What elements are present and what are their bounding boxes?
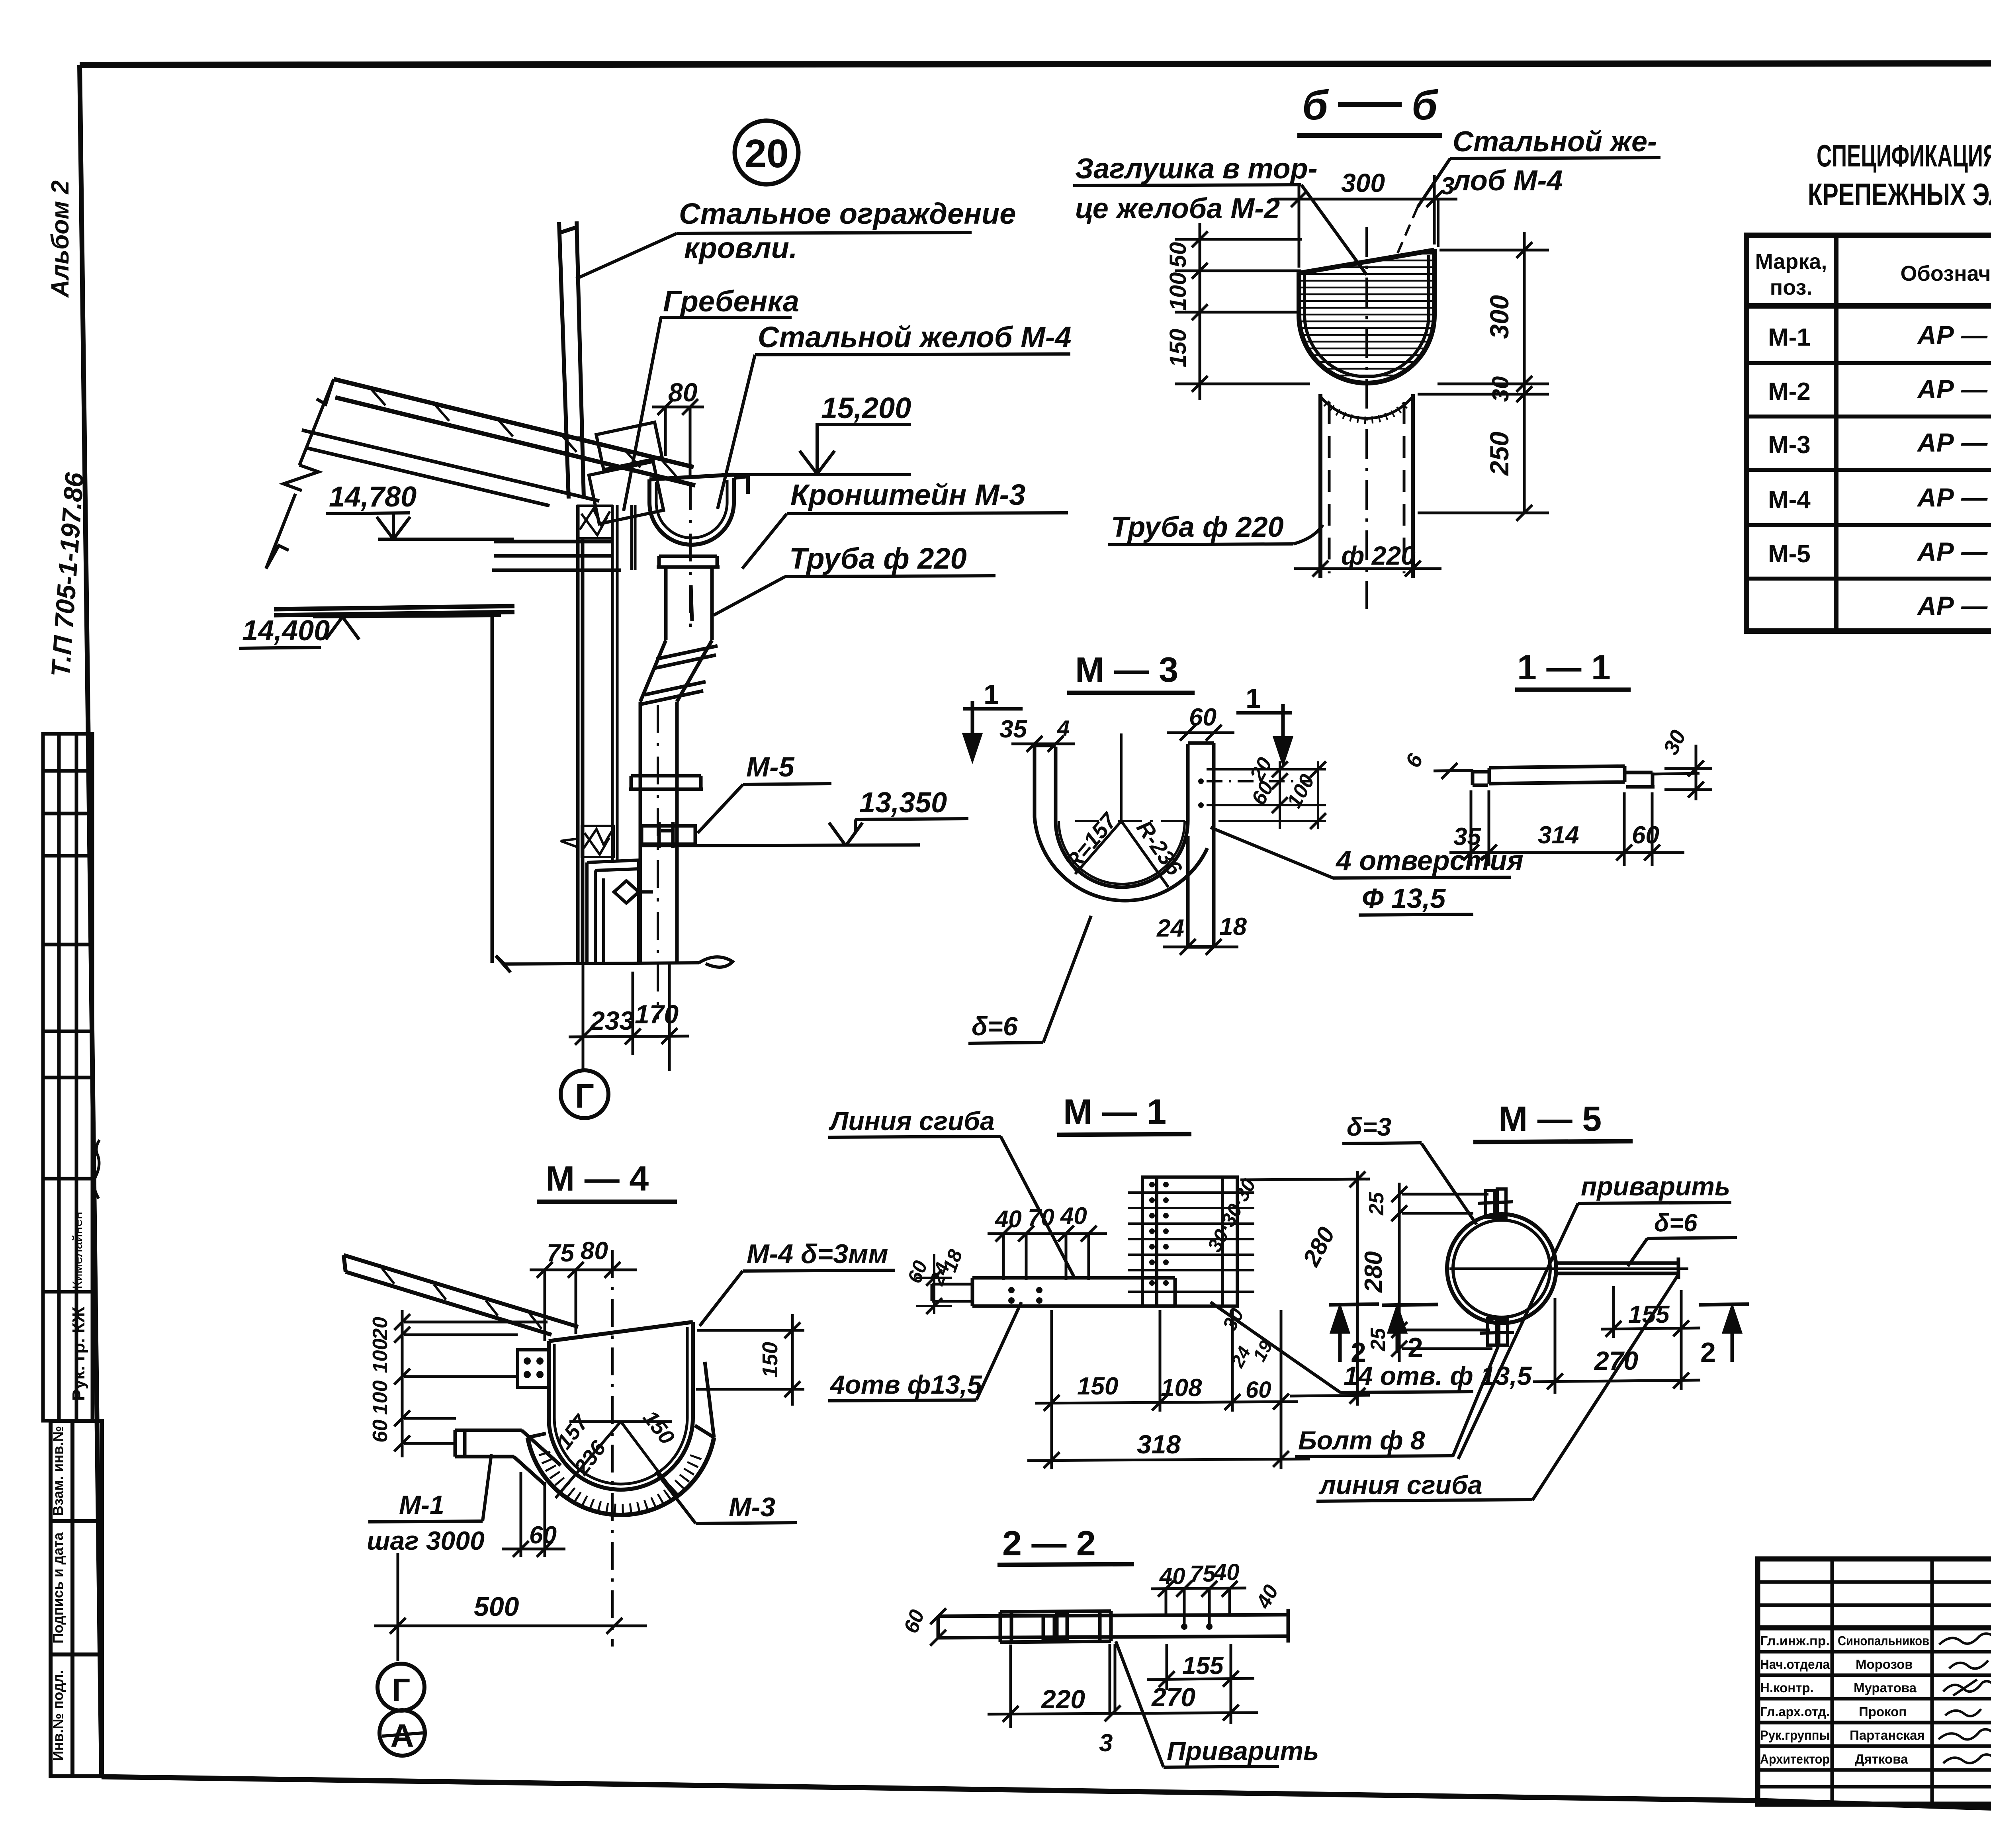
svg-text:Стальной желоб М-4: Стальной желоб М-4: [758, 321, 1072, 354]
svg-text:35: 35: [1453, 823, 1481, 851]
M-1 strap: [455, 1430, 561, 1485]
clamp ring: [1447, 1214, 1556, 1323]
comb / eave fixing parts: [576, 317, 663, 524]
svg-text:М-5: М-5: [1768, 540, 1811, 568]
svg-text:100: 100: [369, 1339, 392, 1373]
svg-text:60: 60: [1246, 1377, 1271, 1403]
svg-text:25: 25: [1367, 1328, 1390, 1351]
svg-text:100: 100: [1165, 272, 1191, 311]
svg-text:приварить: приварить: [1581, 1171, 1730, 1201]
svg-text:Морозов: Морозов: [1856, 1657, 1913, 1672]
svg-text:2: 2: [1351, 1337, 1366, 1368]
svg-text:13,350: 13,350: [859, 787, 947, 819]
signature scribble in upper stamp: [94, 1140, 100, 1199]
pipe centerline dashes: [658, 482, 690, 1019]
axis circles Г / А: [377, 1664, 424, 1711]
pipe below gutter: [1320, 394, 1413, 578]
bottom bolt lugs: [1480, 1319, 1514, 1345]
wall columns: [492, 505, 621, 963]
svg-text:250: 250: [1484, 432, 1514, 476]
svg-text:Линия сгиба: Линия сгиба: [829, 1106, 995, 1136]
svg-text:М-3: М-3: [729, 1492, 775, 1522]
svg-text:14,400: 14,400: [242, 615, 330, 647]
svg-text:300: 300: [1484, 295, 1514, 339]
svg-text:18: 18: [1219, 913, 1247, 941]
svg-text:Рук.группы: Рук.группы: [1760, 1728, 1830, 1742]
right dims 300/30/250: [1418, 232, 1549, 514]
svg-text:Нач.отдела: Нач.отдела: [1760, 1657, 1830, 1672]
left margin lower stamp table: [51, 1421, 102, 1776]
strap tail right: [1449, 1257, 1688, 1279]
svg-text:АР — 16: АР — 16: [1917, 483, 1991, 512]
masonry hatched block lower: [561, 826, 614, 857]
bracket band M-3 with teeth: [528, 1437, 714, 1515]
dim 150 right: [696, 1314, 804, 1406]
svg-text:кровли.: кровли.: [684, 231, 797, 264]
svg-text:Г: Г: [392, 1672, 411, 1708]
svg-text:М — 5: М — 5: [1498, 1099, 1602, 1138]
svg-text:АР — 16: АР — 16: [1917, 428, 1991, 457]
handrail post: [559, 221, 584, 499]
center dash-dot: [1365, 227, 1368, 609]
svg-text:Труба ф 220: Труба ф 220: [789, 542, 967, 575]
weld seam under gutter: [1321, 397, 1412, 418]
svg-text:М-1: М-1: [399, 1490, 444, 1519]
svg-text:лоб М-4: лоб М-4: [1451, 165, 1563, 197]
svg-text:14 отв. ф 13,5: 14 отв. ф 13,5: [1344, 1361, 1532, 1390]
svg-text:М-3: М-3: [1768, 431, 1811, 459]
gutter cross-section hatched: [1299, 250, 1435, 383]
holes in arm: [1198, 778, 1204, 784]
lower pipe: [629, 702, 703, 963]
svg-text:Стальное ограждение: Стальное ограждение: [679, 197, 1016, 230]
pipe socket under gutter: [657, 556, 720, 567]
svg-text:35: 35: [999, 716, 1027, 743]
svg-text:М — 1: М — 1: [1063, 1092, 1166, 1131]
svg-text:КРЕПЕЖНЫХ ЭЛЕМЕНТОВ, ЗАЛОЖЕНН: КРЕПЕЖНЫХ ЭЛЕМЕНТОВ, ЗАЛОЖЕННЫХ В ЛИСТАХ…: [1808, 177, 1991, 212]
svg-text:Дяткова: Дяткова: [1855, 1752, 1908, 1766]
svg-text:Муратова: Муратова: [1854, 1680, 1917, 1695]
svg-text:Г: Г: [575, 1078, 594, 1115]
svg-text:б: б: [1412, 82, 1439, 129]
svg-text:20: 20: [744, 131, 788, 176]
radii: [1075, 821, 1168, 887]
svg-text:Гл.арх.отд.: Гл.арх.отд.: [1760, 1704, 1830, 1719]
svg-text:АР — 16: АР — 16: [1917, 320, 1991, 350]
svg-text:б: б: [1302, 82, 1329, 129]
svg-text:500: 500: [474, 1592, 519, 1622]
svg-text:233: 233: [589, 1006, 634, 1035]
svg-text:50: 50: [1165, 242, 1191, 268]
roof slab slope lines: [334, 379, 695, 485]
svg-text:280: 280: [1360, 1251, 1387, 1293]
svg-text:АР — 16: АР — 16: [1917, 537, 1991, 566]
svg-text:Взам. инв.№: Взам. инв.№: [50, 1426, 66, 1516]
floor deck double line: [274, 606, 514, 615]
svg-text:15,200: 15,200: [821, 391, 911, 424]
gutter at eaves: [649, 475, 748, 545]
top bolt lugs: [1478, 1189, 1513, 1218]
M-5 clamp on pipe: [642, 822, 695, 848]
svg-text:Рук. гр. КЖ: Рук. гр. КЖ: [69, 1306, 88, 1401]
svg-text:24: 24: [1156, 915, 1184, 942]
svg-text:Прокоп: Прокоп: [1859, 1704, 1907, 1719]
left end piece: [1473, 770, 1488, 774]
svg-text:150: 150: [1165, 329, 1191, 368]
svg-text:2 — 2: 2 — 2: [1002, 1523, 1096, 1563]
svg-text:1: 1: [1246, 683, 1261, 714]
svg-text:Гребенка: Гребенка: [663, 285, 799, 318]
svg-text:Инв.№ подл.: Инв.№ подл.: [50, 1670, 66, 1761]
bar with clamp overlap: [938, 1609, 1288, 1643]
svg-text:75: 75: [1190, 1561, 1216, 1587]
svg-text:314: 314: [1538, 821, 1579, 849]
svg-text:60: 60: [529, 1521, 557, 1549]
svg-text:Альбом 2: Альбом 2: [47, 180, 74, 298]
svg-text:Обозначение: Обозначение: [1900, 262, 1991, 286]
svg-text:30: 30: [1488, 376, 1514, 402]
hole leader dims right: [1207, 761, 1326, 829]
center lines: [1075, 733, 1189, 824]
svg-text:155: 155: [1182, 1652, 1224, 1680]
svg-text:150: 150: [1077, 1373, 1118, 1400]
svg-text:поз.: поз.: [1770, 276, 1813, 299]
svg-text:60: 60: [369, 1420, 392, 1443]
strip plate: [1489, 766, 1625, 768]
grid (developed bend): [1142, 1177, 1237, 1306]
gutter profile: [549, 1322, 693, 1490]
svg-text:δ=6: δ=6: [1654, 1209, 1698, 1237]
svg-text:Заглушка в тор-: Заглушка в тор-: [1075, 153, 1318, 185]
signatory rows: [1760, 1633, 1929, 1766]
leader: [677, 233, 972, 233]
svg-text:100: 100: [369, 1381, 392, 1415]
svg-text:δ=3: δ=3: [1347, 1113, 1391, 1141]
svg-text:δ=6: δ=6: [972, 1011, 1018, 1041]
left dims 50/100/150: [1175, 223, 1310, 400]
bracket U shape: [1035, 743, 1214, 947]
svg-text:220: 220: [1040, 1684, 1085, 1714]
left dims 25/280/25: [1399, 1183, 1492, 1362]
svg-text:4отв ф13,5: 4отв ф13,5: [829, 1370, 982, 1399]
section 2 arrows: [1329, 1304, 1379, 1362]
left dim stack 20/100/100/60: [402, 1310, 548, 1457]
left margin upper stamp table: [43, 734, 92, 1421]
svg-text:150: 150: [758, 1342, 782, 1378]
svg-text:40: 40: [1159, 1563, 1185, 1589]
right end piece lower: [1626, 771, 1653, 774]
svg-text:Н.контр.: Н.контр.: [1760, 1680, 1814, 1695]
svg-text:Приварить: Приварить: [1167, 1736, 1319, 1766]
dim 280 right: [1240, 1171, 1370, 1406]
svg-text:це желоба М-2: це желоба М-2: [1075, 193, 1280, 225]
svg-text:20: 20: [369, 1317, 392, 1340]
fixing plate with bolts: [518, 1350, 550, 1387]
plate strip: [932, 1278, 1175, 1306]
radial spokes with radii labels: [555, 1422, 677, 1498]
svg-text:М-5: М-5: [746, 751, 795, 782]
svg-text:4 отверстия: 4 отверстия: [1335, 845, 1524, 876]
svg-text:Гл.инж.пр.: Гл.инж.пр.: [1760, 1633, 1830, 1648]
svg-text:80: 80: [581, 1237, 608, 1265]
svg-text:АР — 16: АР — 16: [1917, 374, 1991, 404]
svg-text:Синопальников: Синопальников: [1838, 1633, 1929, 1648]
svg-text:линия сгиба: линия сгиба: [1318, 1470, 1482, 1500]
svg-text:Партанская: Партанская: [1850, 1728, 1925, 1742]
svg-text:1 — 1: 1 — 1: [1517, 647, 1611, 687]
axis circle Г: [561, 1070, 608, 1118]
bottom break line: [496, 956, 733, 972]
signatures: [1938, 1633, 1991, 1763]
svg-text:155: 155: [1628, 1301, 1670, 1328]
left break edge with zigzag: [266, 379, 334, 569]
svg-text:3: 3: [1099, 1729, 1113, 1757]
svg-text:Кимелайнен: Кимелайнен: [70, 1212, 85, 1289]
center line: [611, 1250, 614, 1647]
bottom dims 35 314 60: [1449, 790, 1684, 866]
S-bend with couplings: [640, 640, 718, 704]
svg-text:ф 220: ф 220: [1341, 541, 1416, 570]
svg-text:М-4: М-4: [1768, 486, 1811, 514]
svg-text:М — 3: М — 3: [1075, 650, 1178, 689]
svg-text:М-2: М-2: [1768, 378, 1811, 405]
svg-text:270: 270: [1151, 1682, 1195, 1712]
svg-text:108: 108: [1161, 1374, 1202, 1402]
svg-text:М-1: М-1: [1768, 324, 1811, 351]
masonry hatched block upper: [578, 506, 612, 538]
svg-text:300: 300: [1341, 168, 1385, 198]
svg-text:Труба ф 220: Труба ф 220: [1111, 511, 1284, 543]
svg-text:М-4 δ=3мм: М-4 δ=3мм: [747, 1239, 888, 1269]
svg-text:Кронштейн М-3: Кронштейн М-3: [790, 478, 1025, 511]
roof slope into gutter: [344, 1255, 578, 1335]
window frame below: [587, 860, 653, 963]
svg-text:1: 1: [984, 679, 999, 710]
svg-text:25: 25: [1365, 1192, 1388, 1216]
upper pipe: [666, 567, 712, 640]
svg-text:АР — 16: АР — 16: [1917, 591, 1991, 620]
svg-text:СПЕЦИФИКАЦИЯ ВОДОСТОЧНЫХ ТРУ: СПЕЦИФИКАЦИЯ ВОДОСТОЧНЫХ ТРУБ, ЖЕЛОБОВ И: [1817, 138, 1991, 173]
svg-text:2: 2: [1700, 1337, 1716, 1368]
svg-text:М — 4: М — 4: [546, 1159, 649, 1198]
svg-text:Марка,: Марка,: [1755, 250, 1827, 274]
svg-text:170: 170: [635, 999, 679, 1029]
purlin line under slab: [302, 430, 599, 506]
svg-text:Подпись и дата: Подпись и дата: [50, 1532, 66, 1644]
node bubble 20: [735, 121, 798, 184]
svg-text:Архитектор: Архитектор: [1760, 1752, 1830, 1766]
svg-text:14,780: 14,780: [329, 481, 417, 513]
holes: [1008, 1182, 1169, 1304]
wall strap behind pipe: [612, 505, 635, 860]
svg-text:Ф 13,5: Ф 13,5: [1362, 883, 1446, 914]
svg-text:60: 60: [1632, 821, 1659, 849]
svg-text:318: 318: [1137, 1430, 1181, 1459]
svg-text:Болт ф 8: Болт ф 8: [1298, 1426, 1425, 1455]
svg-text:Стальной же-: Стальной же-: [1453, 126, 1657, 158]
svg-text:шаг 3000: шаг 3000: [367, 1526, 485, 1555]
